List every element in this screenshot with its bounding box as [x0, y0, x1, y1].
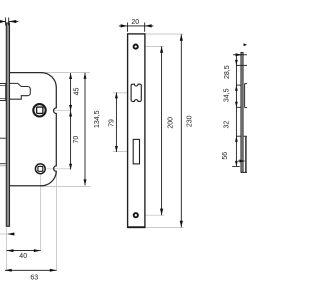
svg-text:63: 63 — [30, 275, 38, 282]
svg-text:45: 45 — [73, 88, 80, 96]
svg-text:28,5: 28,5 — [224, 65, 231, 79]
svg-text:70: 70 — [73, 136, 80, 144]
svg-text:230: 230 — [187, 115, 194, 127]
svg-text:34,5: 34,5 — [224, 88, 231, 102]
svg-text:20: 20 — [131, 19, 139, 26]
svg-text:32: 32 — [223, 121, 230, 129]
svg-text:134,5: 134,5 — [94, 110, 101, 128]
svg-text:79: 79 — [108, 119, 115, 127]
svg-text:56: 56 — [222, 152, 229, 160]
svg-text:40: 40 — [19, 253, 27, 260]
svg-text:200: 200 — [167, 117, 174, 129]
